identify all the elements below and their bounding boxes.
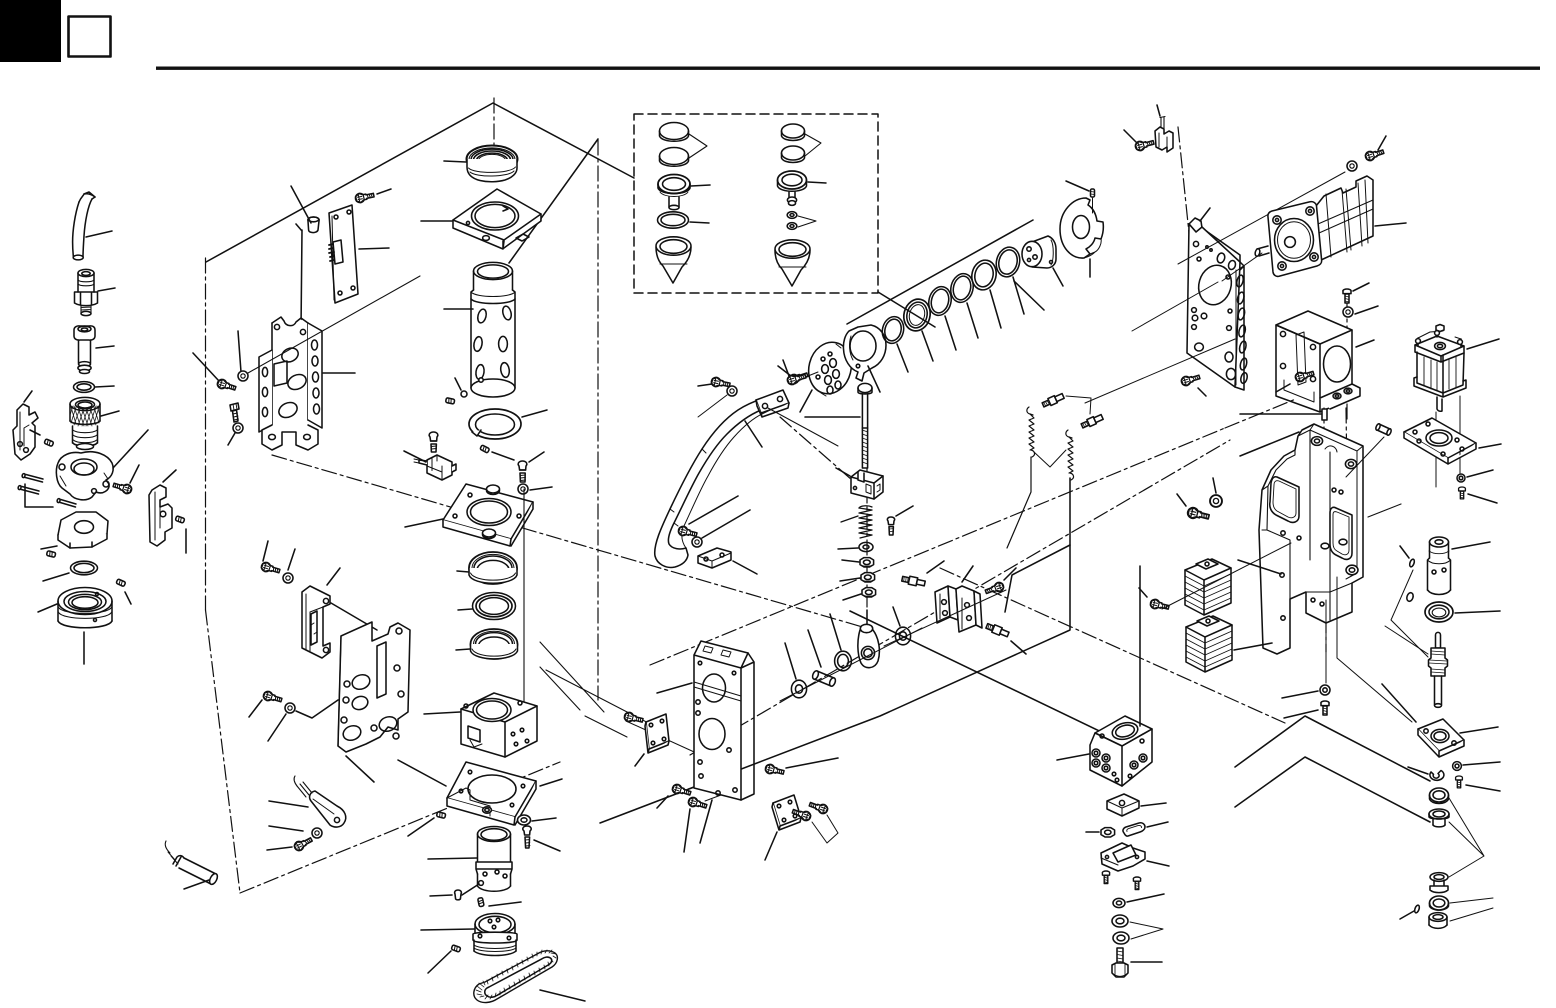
leader screws bottom plate [812, 815, 838, 843]
screw solenoid [1459, 487, 1466, 499]
screw upper [260, 561, 280, 575]
route segments left of frame plate [540, 642, 660, 737]
set screw motor [455, 890, 462, 900]
leader solenoid [1467, 339, 1499, 349]
leader frame to flange right [1385, 626, 1428, 654]
screw manifold 1 [1102, 871, 1109, 884]
leader screw clamp [130, 465, 139, 483]
leader washer below motor [1355, 306, 1378, 314]
leader guide plate [421, 220, 452, 222]
leader cup seal A [691, 185, 710, 186]
boundary vertical at x598 [597, 140, 599, 700]
back plate [272, 318, 308, 433]
axis line through plate to motor screw [1178, 172, 1345, 264]
pivot pin [808, 630, 837, 687]
boundary staircase right [1005, 545, 1070, 612]
screw right of plate [518, 461, 527, 482]
leader screw arm bottom [689, 496, 738, 524]
screw leadscrew [1456, 776, 1463, 788]
leader from hole [462, 884, 479, 895]
leader washer upper [288, 549, 295, 570]
washer link left [785, 643, 807, 698]
bearing ring C [456, 629, 518, 659]
leader manifold left [1057, 754, 1089, 760]
screw PCB [355, 191, 375, 204]
hex bolt with washer mid-right [1187, 507, 1210, 522]
thread guide block [836, 468, 883, 499]
leader PCB [359, 248, 389, 249]
pin lower [1400, 905, 1420, 919]
ring R5 [969, 258, 1001, 328]
bearing ring top [444, 146, 518, 182]
lower opening [1330, 507, 1352, 559]
leader washer below frame [1282, 691, 1318, 698]
leader frame plate [657, 683, 692, 693]
pin top of frame [1240, 409, 1327, 420]
leader fitting [98, 288, 115, 291]
leader guide block [836, 468, 850, 476]
leader bearing upper [1455, 611, 1500, 613]
leader screw U top [1004, 568, 1016, 580]
leader pin coupling [1400, 546, 1409, 558]
coupling [1428, 537, 1491, 595]
screw below frame [1321, 701, 1329, 715]
washer below motor [1343, 307, 1353, 317]
tension spring 2 [1066, 430, 1074, 480]
washer manifold [1113, 894, 1164, 908]
bearing mid [1430, 788, 1449, 804]
leader key [1147, 822, 1168, 827]
leader hex bolt [657, 796, 668, 808]
arm top tab [756, 390, 838, 446]
index plate with holes [338, 622, 410, 782]
stepper motor [1254, 176, 1406, 276]
slide bracket [302, 568, 377, 658]
spacer pad [1107, 794, 1166, 816]
wire from spacer down to bracket [296, 224, 302, 330]
screw left of bracket [216, 378, 237, 392]
boundary clamp axis top-right [1178, 127, 1192, 262]
leader set screw pulley [428, 951, 451, 973]
leader slide bracket [327, 568, 340, 585]
set screw snap ring [480, 445, 490, 453]
pin coupling [1400, 546, 1415, 567]
washer under spring [838, 542, 873, 551]
leader o-ring [95, 386, 114, 387]
boundary U-bracket to manifold diagonal [940, 568, 1285, 723]
leader screw below motor [1353, 283, 1369, 291]
leader link up [866, 610, 868, 624]
leader set screw motor [430, 895, 452, 896]
cable clamp top [1155, 105, 1173, 152]
sensor bracket plate [1101, 843, 1169, 871]
washer arm top [727, 386, 737, 396]
leader screw [896, 506, 913, 516]
motor mount bracket [259, 317, 355, 450]
leaders nut stack [840, 560, 861, 600]
leader hanger bolt [805, 416, 860, 418]
hex nut 1 [860, 558, 874, 567]
V leader pins to screw [1391, 570, 1428, 657]
cable stopper block [269, 776, 346, 831]
set screw for guide bracket [175, 516, 185, 523]
elbow leader washer to plate [296, 700, 338, 718]
hex nut 3 [862, 588, 876, 597]
leader R3 [945, 316, 956, 350]
screw for switch [429, 432, 438, 452]
leader bushing [830, 614, 841, 650]
boundary nut-stack vertical [866, 462, 868, 608]
leader c-clip [1408, 767, 1428, 774]
ring R4 [948, 271, 978, 338]
leader o-ring A [690, 222, 709, 223]
leader bearing flange [38, 604, 57, 612]
pin screw right of o-ring [116, 579, 126, 587]
screw below bracket [230, 403, 239, 422]
leader index plate [346, 756, 374, 782]
screw right of spring [887, 506, 913, 535]
screw damper [1149, 598, 1169, 611]
spindle base plate [405, 484, 533, 546]
leader gearbox [1356, 340, 1374, 347]
leader washer left [785, 643, 796, 679]
axis line washer to bracket [248, 276, 420, 373]
screw manifold 2 [1133, 877, 1140, 890]
leader washer manifold [1127, 894, 1164, 902]
leader screw leadscrew [1466, 785, 1500, 791]
solenoid mount plate [1404, 418, 1501, 464]
leader spacer diagonal [291, 186, 311, 223]
washer B2 [787, 223, 797, 230]
standoff spacer [291, 186, 319, 233]
leader shoulder screw left [927, 561, 944, 573]
leader R6 [1013, 277, 1024, 314]
leader guide bracket [163, 470, 176, 482]
leader lower-left to screw [193, 353, 219, 381]
leader bearing top [444, 161, 466, 162]
header rule [156, 67, 1540, 70]
leader hook bracket [24, 391, 32, 402]
screw cable clamp [1134, 138, 1154, 152]
proximity sensor cylinder [165, 841, 219, 889]
axis plate hole to motor shaft [1222, 253, 1262, 281]
washer below ring plate [518, 815, 557, 825]
leader screw right [529, 452, 544, 462]
lever arm [655, 393, 788, 567]
leader knurled nut [101, 411, 119, 416]
screw arm upper right [786, 372, 806, 386]
hex nut manifold [1086, 828, 1115, 837]
ring R1 [880, 314, 908, 372]
tall mounting plate [1187, 208, 1248, 390]
leader bottom plate [765, 832, 777, 860]
boundary mid-right long diagonal [650, 428, 1225, 665]
leader housing left [424, 712, 460, 714]
leader pin frame horizontal [1240, 413, 1321, 415]
leader washer link [893, 607, 900, 626]
boundary steep center panel [509, 139, 598, 263]
damper block 2 [1186, 616, 1272, 672]
gearbox bracket [1276, 311, 1374, 412]
leader set screw ring plate [408, 818, 434, 836]
leader motor right [1375, 223, 1406, 226]
leader cup valve B [808, 182, 826, 183]
washer solenoid [1457, 470, 1493, 482]
leader spacer pad [1141, 803, 1166, 806]
spring clip bottom of arm [698, 548, 757, 574]
elbow leader shoulder screws [1066, 396, 1091, 414]
c-clip [1408, 767, 1444, 780]
leader frame plate bottom [700, 800, 712, 843]
PCB board [329, 205, 389, 303]
axis line mid-right [1085, 339, 1235, 403]
leader hex bolt gearbox [1276, 384, 1290, 392]
leader ring plate left [398, 760, 446, 786]
leader cable stopper 2 [269, 826, 303, 831]
lead screw [1382, 632, 1448, 722]
hex bolt manifold [1112, 948, 1162, 977]
leader R5 [990, 290, 1001, 328]
set screw pulley [451, 945, 461, 952]
boundary mid-right parallel diagonal [690, 440, 1230, 755]
leader rotor [1053, 268, 1063, 286]
perforated cylinder [444, 262, 515, 397]
screw frame lower 2 [687, 796, 708, 810]
leader screw damper [1139, 588, 1147, 597]
leader spring [841, 516, 858, 522]
washer lower [285, 703, 295, 713]
axis U bracket [884, 590, 1006, 646]
right flange with oval slots [308, 323, 322, 428]
leader pin screw [125, 592, 131, 604]
boundary line mid diagonal to nut stack [272, 455, 866, 628]
washer mid-right [1210, 495, 1222, 507]
leader screw clamp [1124, 130, 1136, 142]
leader R4 [967, 303, 978, 338]
leader washer lower [268, 714, 286, 741]
washer below bracket [233, 423, 243, 433]
flanged bushing lower [1430, 873, 1448, 893]
bearing lower [1430, 896, 1449, 910]
leader caps A [689, 134, 707, 158]
axis washer down-left [698, 395, 727, 417]
tension spring 1 [1007, 407, 1035, 548]
leader hex bolt manifold [1131, 961, 1162, 963]
leaders v to lower parts [1449, 798, 1484, 877]
leader washer mid-right [1213, 478, 1216, 493]
washer motor axis [1347, 161, 1357, 171]
screw below motor [1343, 289, 1351, 303]
key manifold [1123, 822, 1168, 836]
leader belt [540, 990, 585, 1001]
ring R6 [993, 245, 1024, 314]
axis screw to disc [808, 372, 818, 376]
ring nut 1 [1112, 915, 1128, 927]
leader to screw vertical [238, 331, 241, 372]
cap A2 [660, 148, 689, 167]
vertical line frame to flange [1326, 577, 1412, 722]
leader cylinder [444, 308, 473, 310]
guide plate square [421, 189, 541, 249]
washer below frame [1282, 685, 1330, 698]
cap A1 [660, 123, 689, 142]
cam plate [41, 512, 108, 549]
leader manifold vertical [1139, 566, 1141, 726]
leader screw upper right [783, 360, 789, 376]
shoulder screw pair upper [1041, 392, 1064, 408]
leader ring A [457, 571, 469, 572]
washer pin [1406, 592, 1414, 602]
axis screw through side plate to frame [626, 721, 703, 756]
bearing flange block [1418, 719, 1498, 757]
leader spring 1 [1007, 457, 1031, 548]
leader screw below frame [1284, 710, 1318, 718]
screw bottom plate 2 [808, 800, 829, 815]
washer left of bracket [238, 371, 248, 381]
leader side plate [635, 754, 644, 766]
leader screw arm top [698, 384, 712, 386]
hex bolt below plate [1180, 373, 1200, 387]
pin 1 [22, 473, 43, 482]
drive pulley [421, 914, 517, 956]
leader screw mid right [786, 758, 838, 768]
bosses and holes [1311, 437, 1322, 446]
leader micro switch [404, 451, 426, 462]
leader sensor bracket [1147, 861, 1169, 866]
leader tall plate [1200, 208, 1210, 221]
leader washer [838, 548, 858, 549]
feet [262, 425, 318, 450]
screw right of clamp [112, 481, 132, 495]
cap B1 [782, 124, 805, 141]
leader from ear to plate [331, 603, 377, 630]
screw sensor [293, 835, 314, 852]
axis line long vertical [523, 489, 525, 722]
leader washers B [798, 216, 816, 227]
leader tube [86, 231, 112, 237]
V leader springs [1034, 450, 1066, 467]
boundary panel around ring chain [847, 220, 1033, 324]
shoulder screw left [901, 575, 925, 588]
manifold block [1057, 566, 1152, 786]
washer sensor [312, 828, 322, 838]
boundary gearbox vertical [1346, 300, 1348, 420]
o-ring mid [43, 561, 98, 581]
hex nut 2 [861, 573, 875, 582]
pin 2 [18, 485, 39, 494]
leader bracket right [323, 372, 355, 374]
leader washer [532, 818, 556, 821]
V leader ring nuts [1130, 922, 1163, 939]
screw bottom plate 1 [791, 807, 812, 822]
leader pin [808, 630, 821, 667]
washer arm bottom [692, 537, 702, 547]
screw top of U bracket [984, 581, 1005, 596]
leader screw below washer [534, 840, 560, 851]
leader encoder disc [1089, 259, 1091, 277]
washer B1 [787, 212, 797, 219]
leader set screw motor 2 [489, 902, 521, 906]
leader set screw encoder [1066, 181, 1089, 191]
leader coupling [1452, 542, 1490, 549]
cup valve B [778, 171, 827, 205]
side plate left [635, 714, 669, 766]
washer upper [283, 573, 293, 583]
leader screw disc [778, 366, 791, 376]
pin cylinder [461, 391, 467, 397]
leader washer arm bottom [702, 510, 750, 538]
set screw motor 2 [478, 898, 484, 907]
elbow leader pins [25, 484, 53, 507]
shoulder screw bottom [985, 622, 1009, 638]
boundary diagonal upper-left panel [206, 103, 634, 262]
boundary line bottom-left horizontal [240, 762, 560, 893]
o-ring small [74, 382, 115, 393]
screw arm top [711, 377, 731, 390]
boundary vertical top column [493, 98, 495, 172]
axis damper to frame [1162, 543, 1291, 609]
hex bolt gearbox [1294, 369, 1314, 383]
guide bracket right [149, 470, 176, 546]
leader solenoid plate [1479, 444, 1501, 448]
dashed box frame [634, 114, 878, 293]
hook bracket left [13, 391, 38, 460]
left flange [259, 350, 272, 432]
bearing ring A [457, 552, 517, 584]
boundary route lower middle [850, 611, 1145, 753]
boundary resumes right of dashed box [878, 292, 935, 327]
leader plunger [96, 346, 114, 348]
screw frame mid right [764, 763, 784, 776]
tube P1 [73, 192, 112, 260]
leader cam plate [41, 546, 57, 549]
upper opening [1270, 477, 1299, 523]
cap B2 [782, 146, 805, 163]
vertical guides solenoid to plate [1436, 396, 1460, 487]
leader pulley [421, 929, 474, 930]
leader to plate hole [1132, 282, 1218, 331]
leader body frame left [1238, 560, 1281, 574]
axis dowel to frame [1346, 437, 1384, 477]
leader sensor [184, 880, 209, 889]
boundary staircase manifold upper [1235, 716, 1430, 781]
leader arm [745, 421, 762, 447]
set screw ring plate [436, 812, 445, 819]
screw side plate [623, 711, 643, 724]
boundary below ring chain [780, 417, 852, 480]
leader to pin [30, 430, 40, 435]
seal R2 [901, 296, 934, 361]
header square outline [69, 17, 111, 57]
set screw cam [46, 551, 55, 558]
fitting (tube connector) [75, 269, 116, 315]
leader frame to right [1368, 504, 1401, 517]
leader bearing flange bottom [83, 632, 85, 664]
axis line link [780, 628, 922, 701]
leader set screw cylinder [455, 378, 461, 390]
micro switch [404, 451, 456, 480]
screw below washer [523, 826, 531, 848]
screw lower [262, 690, 282, 704]
link rod end [858, 610, 880, 668]
bushing link [830, 614, 851, 671]
leader screw frame lower 2 [684, 809, 690, 852]
leader washer solenoid [1467, 470, 1493, 477]
axis bolts to frame bottom [688, 772, 737, 801]
leader shoulder screw bottom [1011, 641, 1026, 654]
boundary corner up to gearbox [1225, 378, 1347, 428]
leader R2 [922, 331, 933, 361]
